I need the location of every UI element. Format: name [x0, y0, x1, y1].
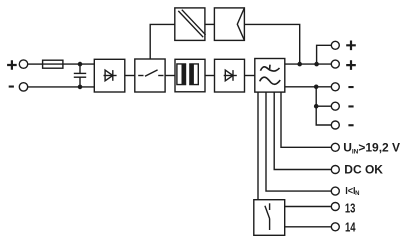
output terminal + (upper) — [331, 41, 339, 49]
upper tilde with tick symbol — [260, 65, 279, 71]
relay contact symbol — [265, 203, 270, 230]
signal terminal Uin — [331, 143, 339, 151]
svg-text:UIN>19,2 V: UIN>19,2 V — [343, 140, 400, 155]
wire: - branch vertical to lower - terminals — [316, 87, 331, 125]
output terminal + (lower) — [331, 60, 339, 68]
feedback box (chevron symbol) — [214, 8, 244, 41]
wire: + input terminal to fuse — [28, 63, 43, 65]
diagonal slash symbol — [178, 10, 205, 38]
output terminal - (lower) — [331, 121, 339, 129]
input protection diode box U1 — [94, 59, 125, 92]
wire: switch box top to control branch — [150, 24, 175, 59]
output filter/regulator box — [255, 59, 285, 93]
wire: PWM box to feedback box — [205, 23, 215, 25]
signal terminal DC OK — [331, 166, 339, 174]
wire: branch to upper + terminal — [317, 45, 332, 64]
label - (middle output) — [348, 105, 353, 107]
sense wire: regulator to DC OK terminal — [274, 92, 331, 169]
transformer windings — [177, 64, 198, 85]
junction: capacitor on - rail — [78, 85, 81, 88]
label + (lower output) — [346, 60, 356, 70]
output terminal - (first) — [331, 83, 339, 91]
signal terminal I<IN — [331, 187, 339, 195]
chevron symbol — [237, 8, 244, 41]
wire: - input terminal to input diode box — [28, 86, 95, 88]
junction: middle - terminal — [315, 105, 318, 108]
transformer box T1 — [175, 59, 205, 92]
input terminal - — [19, 83, 27, 91]
sense wire: regulator to current terminal — [266, 92, 331, 191]
terminal 14 — [331, 223, 339, 231]
terminal 13 — [331, 203, 339, 211]
svg-text:13: 13 — [345, 201, 356, 216]
input terminal + — [19, 60, 27, 68]
wire: relay to terminal 13 — [285, 206, 332, 208]
wire: relay to terminal 14 — [285, 226, 332, 228]
label + (upper output) — [346, 41, 356, 51]
diode D1 — [104, 70, 117, 81]
electronic switch box S1 — [135, 59, 165, 92]
wire: output diode box to regulator box — [245, 75, 255, 77]
PWM converter box (diagonal symbol) — [175, 8, 205, 41]
label - (lower output) — [348, 124, 353, 126]
fuse F1 — [43, 60, 63, 68]
wire: fuse to input diode box — [63, 63, 94, 65]
wire: transformer to output diode box — [205, 75, 215, 77]
junction: capacitor on + rail — [78, 63, 81, 66]
junction: control branch on + rail — [298, 63, 301, 66]
diode D2 — [224, 70, 237, 81]
label - (input) — [9, 86, 14, 88]
output terminal - (middle) — [331, 102, 339, 110]
wire: U1 to switch box — [125, 75, 135, 77]
+ output rail — [285, 63, 332, 65]
output rectifier diode box — [215, 59, 245, 92]
wire: switch box to transformer — [165, 75, 175, 77]
sense wire: regulator to Uin terminal — [281, 92, 331, 147]
capacitor C1 — [74, 64, 86, 87]
label - (first output) — [348, 86, 353, 88]
wire: feedback box to + rail — [244, 24, 299, 64]
svg-text:N: N — [355, 191, 359, 197]
svg-text:14: 14 — [345, 220, 356, 235]
svg-text:I<I: I<I — [345, 185, 355, 197]
junction: upper + terminal branch — [315, 63, 318, 66]
lower tilde symbol — [260, 77, 281, 84]
relay contact box K1 — [254, 200, 285, 236]
wire: branch to middle - terminal — [316, 105, 331, 107]
- output rail — [285, 86, 332, 88]
label + (input) — [7, 60, 17, 70]
svg-text:DC OK: DC OK — [344, 163, 383, 177]
switch contact symbol — [138, 70, 163, 76]
wire: regulator to relay box — [257, 92, 259, 200]
junction: - branch — [315, 85, 318, 88]
